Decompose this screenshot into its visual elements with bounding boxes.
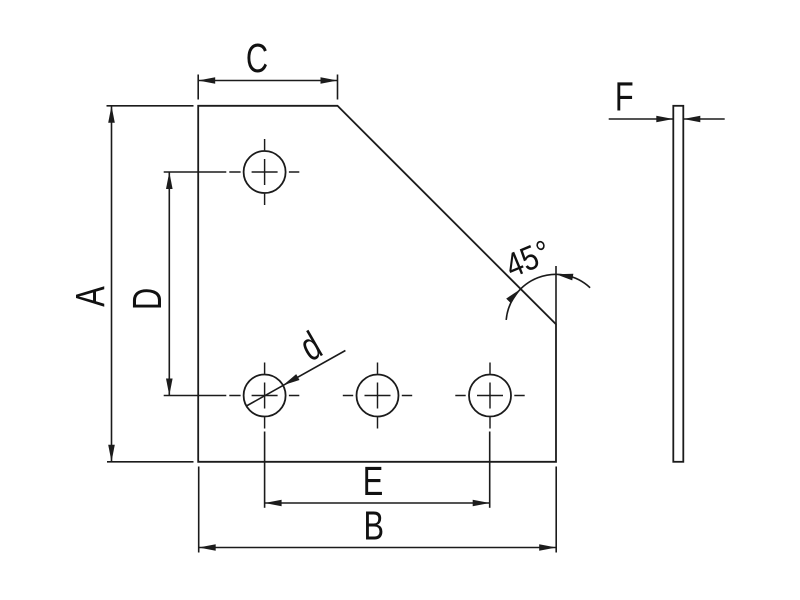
arrowhead F right (points left) [683,116,700,123]
dimension E extension left [264,432,266,508]
dimension C line [198,80,337,82]
hole H2 centerlines [229,395,299,397]
hole H2 (bottom-left) circle [244,375,286,417]
arrowhead A top [108,106,115,123]
arrowhead B left [199,544,216,551]
svg-text:C: C [246,35,268,81]
dimension F line right [683,118,724,120]
dimension D line [168,172,170,396]
arrowhead B right [539,544,556,551]
hole H4 (bottom-right) circle [469,375,511,417]
arrowhead E left [265,500,282,507]
arrowhead D bottom [166,379,173,396]
dimension D extension bottom [164,395,227,397]
dimension C extension left [197,75,199,100]
dimension A line [111,106,113,462]
dimension B line [199,547,557,549]
hole H1 (top) circle [244,151,286,193]
arrowhead E right [473,500,490,507]
arrowhead angle at vertical [556,274,573,281]
hole H4 centerlines [455,395,524,397]
dimension E line [265,502,490,504]
arrowhead C right [321,77,338,84]
dimension C extension right [337,75,339,100]
svg-text:E: E [363,458,384,504]
hole H3 centerlines [343,395,412,397]
dimension B extension left [198,467,200,553]
svg-text:A: A [67,286,113,307]
svg-text:B: B [363,502,384,548]
arrowhead D top [166,172,173,189]
arrowhead angle at chamfer [506,289,520,303]
dimension B extension right [555,467,557,553]
dimension F line left [609,118,674,120]
angle 45 extension line (vertical above corner) [555,266,557,324]
dimension A extension bottom [107,461,194,463]
dimension A extension top [107,105,194,107]
leader line for d [246,351,345,407]
arrowhead A bottom [108,445,115,462]
arrowhead C left [198,77,215,84]
hole H3 (bottom-middle) circle [357,375,399,417]
svg-text:D: D [124,288,170,310]
angle 45 dimension arc [506,274,590,320]
svg-text:F: F [615,73,634,119]
dimension E extension right [489,432,491,508]
arrowhead F left (points right) [656,116,673,123]
plate outline (front view) [198,106,556,462]
side view plate (thickness) [673,106,683,462]
arrowhead d leader [283,374,300,385]
dimension D extension top [164,171,227,173]
hole H1 centerlines [229,171,299,173]
